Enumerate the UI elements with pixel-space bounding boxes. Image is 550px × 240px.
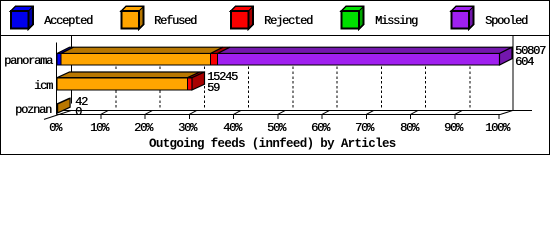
x-axis label 30% xyxy=(178,123,196,134)
back x-axis line xyxy=(57,109,533,111)
legend separator line xyxy=(0,35,550,37)
x-axis label 50% xyxy=(267,123,285,134)
legend cube Refused xyxy=(122,7,144,30)
value label poznan line1 xyxy=(75,97,87,108)
dashed gridlines 10%-90% (back wall) xyxy=(116,48,470,111)
x-axis label 60% xyxy=(311,123,329,134)
front y-axis xyxy=(56,43,58,115)
legend cube Missing xyxy=(342,7,364,30)
legend cube Rejected xyxy=(231,7,253,30)
category label icm xyxy=(34,81,52,92)
legend label Rejected xyxy=(264,16,312,27)
bar icm: front faces xyxy=(57,78,192,90)
x-axis label 10% xyxy=(90,123,108,134)
bar panorama: end cap xyxy=(500,47,513,65)
value label panorama line1 xyxy=(515,46,545,57)
bar poznan: top face xyxy=(57,98,70,104)
x-axis label 20% xyxy=(134,123,152,134)
legend cube Spooled xyxy=(452,7,474,30)
axis right corner slant xyxy=(501,110,514,114)
back y-axis (left wall edge) xyxy=(71,36,73,104)
x-axis ticks 10%-100% xyxy=(101,114,499,119)
legend label Missing xyxy=(375,16,417,27)
right boundary (100% back wall edge) xyxy=(512,36,514,110)
x-axis label 0% xyxy=(49,123,61,134)
legend cube Accepted xyxy=(11,7,33,30)
bar poznan: end cap xyxy=(58,98,71,113)
value label icm line2 xyxy=(207,83,219,94)
bar icm: end cap xyxy=(192,72,205,90)
bar icm: top faces xyxy=(57,72,205,78)
legend label Spooled xyxy=(485,16,527,27)
x-axis label 70% xyxy=(355,123,373,134)
bar panorama: top faces xyxy=(57,47,512,53)
category label poznan xyxy=(15,105,51,116)
border frame xyxy=(1,1,550,155)
value label poznan line2 xyxy=(75,107,81,118)
category label panorama xyxy=(4,56,52,67)
legend label Accepted xyxy=(44,16,92,27)
x-axis label 90% xyxy=(444,123,462,134)
front x-axis line xyxy=(57,113,501,115)
legend label Refused xyxy=(154,16,196,27)
chart title xyxy=(149,138,396,150)
axis left corner slant (0% tick) xyxy=(44,110,72,119)
value label panorama line2 xyxy=(515,57,533,68)
x-axis label 80% xyxy=(400,123,418,134)
x-axis label 40% xyxy=(223,123,241,134)
x-axis label 100% xyxy=(485,123,509,134)
x-axis tick slants (ribbon) xyxy=(101,110,463,114)
bar poznan: front face xyxy=(56,104,59,113)
value label icm line1 xyxy=(207,72,237,83)
bar panorama: front faces xyxy=(57,54,500,66)
